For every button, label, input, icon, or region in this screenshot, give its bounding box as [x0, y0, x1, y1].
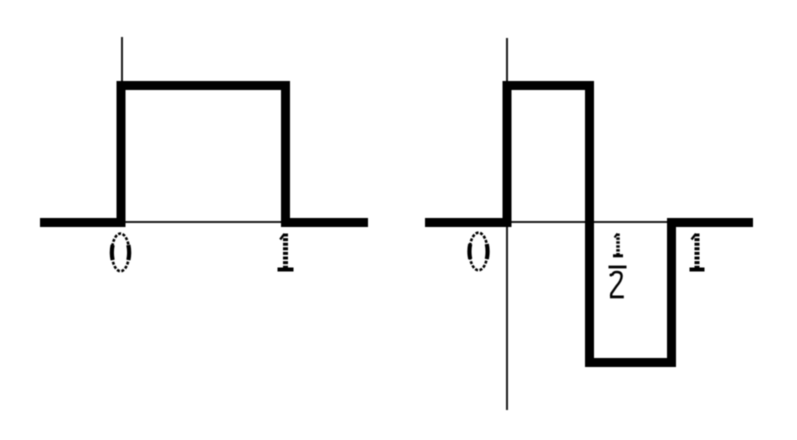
left plot thin baseline segment between 0 and 1: [123, 221, 283, 223]
right plot thin baseline segment between 0 and 1: [508, 221, 670, 223]
right plot label 1/2 fraction bar: [609, 266, 627, 269]
left plot label 1: [278, 234, 294, 270]
right plot label 1/2 denominator 2: [610, 272, 624, 297]
left plot y-axis (thin): [121, 37, 123, 83]
left plot label 0: [112, 234, 129, 272]
right plot label 1: [690, 234, 705, 270]
right plot label 1/2 numerator 1: [613, 234, 623, 256]
right plot y-axis (thin): [506, 38, 508, 410]
right plot label 0: [469, 233, 487, 271]
right plot thick curve: Haar wavelet: [425, 86, 753, 363]
left plot thick curve: Haar scaling function pulse: [40, 86, 368, 223]
